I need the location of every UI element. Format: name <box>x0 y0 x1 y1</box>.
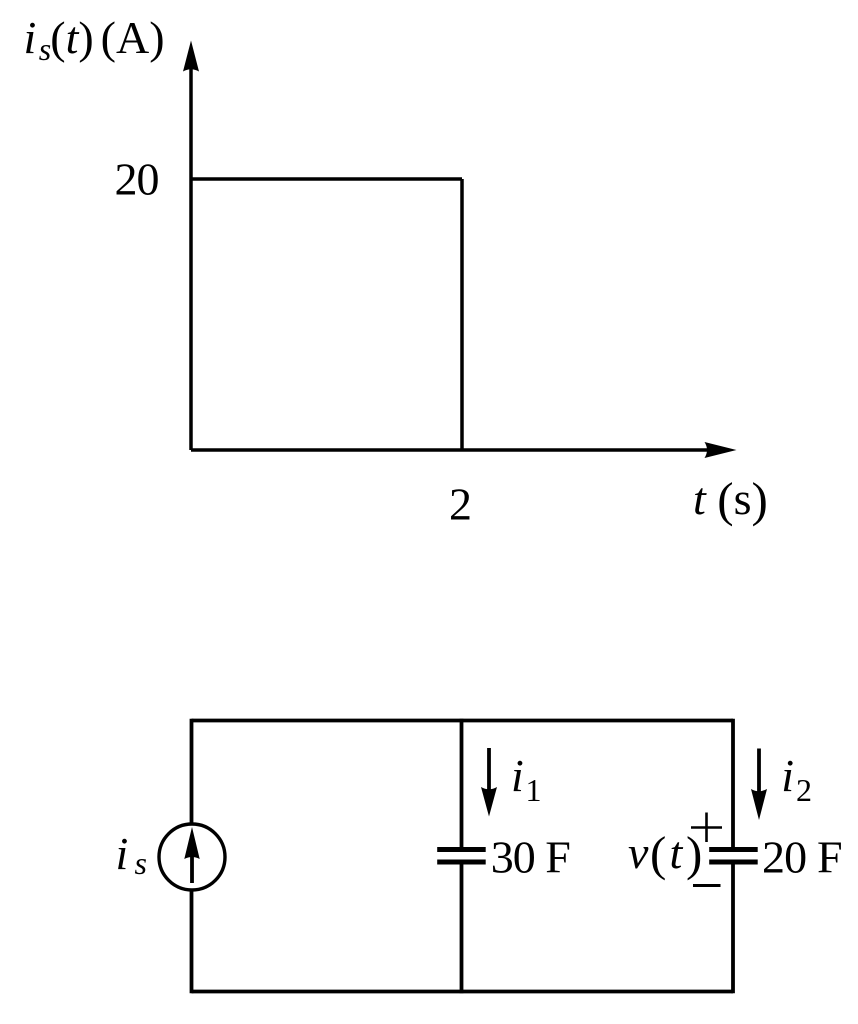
svg-text:20 F: 20 F <box>762 832 843 883</box>
svg-text:(: ( <box>650 826 666 881</box>
svg-text:2: 2 <box>796 772 812 808</box>
svg-text:t (s): t (s) <box>693 472 768 527</box>
svg-text:t: t <box>670 827 684 878</box>
svg-text:v: v <box>628 827 649 878</box>
svg-text:30 F: 30 F <box>491 832 571 883</box>
svg-text:i: i <box>781 750 794 801</box>
svg-text:1: 1 <box>526 772 542 808</box>
svg-text:2: 2 <box>449 479 472 530</box>
svg-text:i: i <box>511 750 524 801</box>
svg-text:is(t) (A): is(t) (A) <box>24 12 165 67</box>
svg-text:i: i <box>116 828 129 879</box>
svg-text:20: 20 <box>115 154 160 205</box>
svg-text:): ) <box>686 826 702 881</box>
svg-text:s: s <box>135 845 147 881</box>
